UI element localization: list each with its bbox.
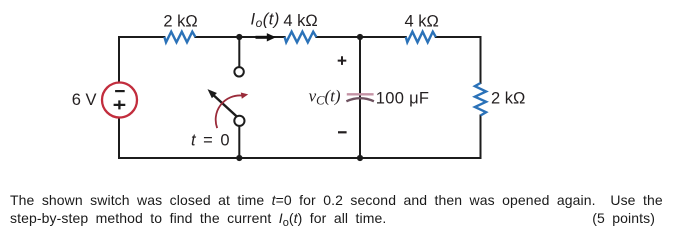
switch top contact circle bbox=[234, 67, 243, 76]
capacitor C top plate bbox=[347, 93, 374, 95]
svg-text:vC(t): vC(t) bbox=[309, 87, 341, 108]
node C switch bottom junction dot bbox=[236, 155, 242, 161]
voltage source plus sign bbox=[114, 100, 126, 109]
svg-text:100 μF: 100 μF bbox=[376, 89, 430, 107]
switch bottom contact circle bbox=[234, 116, 244, 126]
wire left rail lower bbox=[118, 118, 120, 159]
svg-text:Io(t): Io(t) bbox=[251, 11, 280, 31]
resistor 4k ohm middle bbox=[285, 32, 317, 43]
resistor 4k ohm right bbox=[406, 32, 436, 43]
voltage source 6V circle bbox=[102, 83, 137, 118]
wire left rail upper bbox=[118, 37, 120, 83]
svg-text:2 kΩ: 2 kΩ bbox=[491, 89, 525, 107]
points label bbox=[592, 210, 655, 226]
svg-text:t = 0: t = 0 bbox=[191, 132, 230, 150]
switch blade arrowhead bbox=[208, 89, 217, 98]
wire top rail right segment bbox=[436, 36, 481, 38]
resistor R 2k ohm top left bbox=[164, 32, 195, 43]
svg-text:4 kΩ: 4 kΩ bbox=[405, 12, 439, 30]
wire switch branch upper bbox=[238, 37, 240, 67]
switch closing arrowhead bbox=[241, 93, 248, 99]
svg-text:4 kΩ: 4 kΩ bbox=[283, 12, 317, 30]
node D capacitor bottom junction dot bbox=[357, 155, 363, 161]
wire bottom rail bbox=[119, 157, 481, 159]
node B capacitor top junction dot bbox=[357, 34, 363, 40]
label capacitor plus bbox=[338, 56, 347, 65]
switch blade bbox=[213, 94, 237, 116]
svg-text:2 kΩ: 2 kΩ bbox=[163, 13, 197, 31]
node A top junction dot bbox=[236, 34, 242, 40]
label capacitor minus bbox=[338, 131, 347, 133]
wire top rail between 2k and 4k (through node A) bbox=[195, 36, 284, 38]
wire capacitor branch bbox=[359, 37, 361, 158]
capacitor C bottom plate (curved) bbox=[346, 98, 374, 101]
switch closing arrow (red arc) bbox=[216, 95, 242, 128]
voltage source minus sign bbox=[115, 90, 125, 92]
resistor 2k ohm right vertical bbox=[475, 83, 486, 116]
wire right rail upper bbox=[480, 37, 482, 83]
current Io arrow on top wire bbox=[256, 36, 268, 39]
wire top rail left segment bbox=[119, 36, 164, 38]
problem statement paragraph bbox=[10, 191, 690, 229]
wire switch branch lower bbox=[238, 126, 240, 158]
wire top rail between 4k and 4k (through node B) bbox=[316, 36, 405, 38]
svg-text:6 V: 6 V bbox=[72, 91, 97, 109]
wire right rail lower bbox=[480, 116, 482, 159]
